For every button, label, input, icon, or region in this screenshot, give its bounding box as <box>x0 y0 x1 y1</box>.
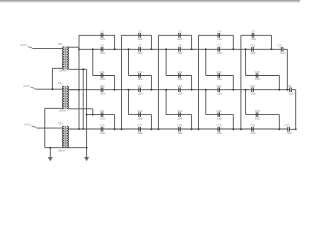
wire rail R5 segment 5 <box>246 114 280 116</box>
svg-text:C25: C25 <box>255 109 260 113</box>
wire drop R5-R6 b2 <box>150 115 152 130</box>
wire rail R5 segment 2 <box>129 114 152 116</box>
wire feed R4-R5 b4 <box>245 90 247 115</box>
wire rail R2 <box>79 48 281 50</box>
svg-text:C10: C10 <box>250 44 255 48</box>
capacitor C19 <box>217 87 219 92</box>
svg-text:100n: 100n <box>280 52 286 55</box>
svg-text:TR1: TR1 <box>58 42 63 46</box>
wire drop R5-R6 b4 <box>232 115 234 130</box>
wire rail R1 segment 4 <box>199 34 234 36</box>
wire TR2 secondary top lead <box>69 89 79 91</box>
svg-text:C9: C9 <box>217 44 221 48</box>
svg-text:100n: 100n <box>287 132 293 135</box>
wire rail R3 segment 2 <box>129 75 152 77</box>
wire drop R3-R4 b2 <box>150 76 152 90</box>
wire drop R1-R2 b3 <box>191 35 193 49</box>
svg-text:C8: C8 <box>178 44 182 48</box>
top window edge shading <box>0 0 300 1</box>
capacitor C3 <box>178 33 180 38</box>
svg-text:C1: C1 <box>101 30 105 34</box>
svg-text:C31: C31 <box>277 44 282 48</box>
wire rail R5 segment 1 <box>87 114 115 116</box>
svg-text:C7: C7 <box>138 44 142 48</box>
capacitor C33 <box>287 127 289 132</box>
svg-text:C22: C22 <box>137 109 142 113</box>
svg-text:C24: C24 <box>217 109 222 113</box>
wire drop R1-R2 b4 <box>232 35 234 49</box>
svg-text:100n: 100n <box>217 52 223 55</box>
capacitor C2 <box>138 33 140 38</box>
svg-text:100n: 100n <box>288 92 294 95</box>
ground G1 <box>49 148 51 157</box>
capacitor C5 <box>251 33 253 38</box>
svg-text:C23: C23 <box>177 109 182 113</box>
svg-text:C14: C14 <box>217 70 222 74</box>
svg-text:C29: C29 <box>217 124 222 128</box>
capacitor C21 <box>100 112 102 117</box>
svg-text:100n: 100n <box>100 92 106 95</box>
svg-text:100n: 100n <box>100 52 106 55</box>
svg-text:C5: C5 <box>252 30 256 34</box>
wire feed R2-R3 b2 <box>165 49 167 75</box>
svg-text:C32: C32 <box>287 84 292 88</box>
svg-text:100n: 100n <box>138 92 144 95</box>
svg-text:C19: C19 <box>217 84 222 88</box>
wire feed R2-R3 b3 <box>205 49 207 75</box>
wire TR1 primary bottom <box>52 67 62 69</box>
wire TR1 secondary bottom lead <box>69 68 87 70</box>
transformer TR2 <box>63 86 65 109</box>
wire vertical V87 <box>86 69 88 147</box>
wire input2 to TR2 primary <box>36 88 63 90</box>
wire feed R4-R5 b2 <box>165 90 167 115</box>
capacitor C29 <box>217 127 219 132</box>
svg-text:100n: 100n <box>217 117 223 120</box>
capacitor C4 <box>217 33 219 38</box>
capacitor C8 <box>178 47 180 52</box>
svg-text:C16: C16 <box>100 84 105 88</box>
capacitor C11 <box>100 73 102 78</box>
svg-text:ACV2: ACV2 <box>23 85 30 88</box>
wire rail2-rail3 input feed <box>92 49 94 75</box>
ground rail <box>45 147 87 149</box>
capacitor C12 <box>138 73 140 78</box>
wire vertical V83 <box>82 69 84 129</box>
wire input3 to TR3 primary <box>37 127 63 129</box>
capacitor C17 <box>138 87 140 92</box>
svg-text:100n: 100n <box>138 117 144 120</box>
svg-text:100n: 100n <box>138 52 144 55</box>
svg-text:100mH: 100mH <box>59 70 67 73</box>
wire feed R4-R5 b1 <box>128 90 130 115</box>
wire feed R2-R3 b1 <box>128 49 130 75</box>
svg-text:100n: 100n <box>138 38 144 41</box>
svg-text:C21: C21 <box>100 109 105 113</box>
svg-text:C20: C20 <box>250 84 255 88</box>
capacitor C16 <box>100 87 102 92</box>
wire rail R1 segment 2 <box>122 34 152 36</box>
ground G2 <box>86 148 88 157</box>
capacitor C20 <box>251 87 253 92</box>
svg-text:ACV1: ACV1 <box>20 44 27 47</box>
wire drop R3-R4 b3 <box>191 76 193 90</box>
svg-text:100mH: 100mH <box>58 150 66 153</box>
svg-text:100n: 100n <box>217 38 223 41</box>
capacitor C9 <box>217 47 219 52</box>
svg-text:100n: 100n <box>138 132 144 135</box>
wire feed R2-R3 b4 <box>245 49 247 75</box>
wire drop R5-R6 b3 <box>191 115 193 130</box>
svg-text:100n: 100n <box>250 132 256 135</box>
wire feed R4-R5 b3 <box>205 90 207 115</box>
capacitor C31 <box>280 47 282 52</box>
wire rail R1 segment 3 <box>158 34 191 36</box>
wire TR2 secondary bottom lead <box>69 108 93 110</box>
wire rail R6 <box>69 128 288 130</box>
wire TR1 secondary top lead <box>69 46 79 48</box>
wire rail R3 segment 5 <box>246 75 280 77</box>
page background <box>0 0 300 188</box>
svg-text:100n: 100n <box>217 78 223 81</box>
svg-text:100n: 100n <box>177 78 183 81</box>
wire drop R5-R6 b1 <box>114 115 116 130</box>
wire rail R3 segment 1 <box>93 75 115 77</box>
svg-text:100n: 100n <box>255 78 261 81</box>
svg-text:C15: C15 <box>255 70 260 74</box>
capacitor C27 <box>138 127 140 132</box>
svg-text:C2: C2 <box>138 30 142 34</box>
svg-text:C6: C6 <box>101 44 105 48</box>
svg-text:100n: 100n <box>138 78 144 81</box>
capacitor C25 <box>255 112 257 117</box>
wire rail R5 segment 3 <box>166 114 192 116</box>
svg-text:TR3: TR3 <box>58 121 63 125</box>
svg-text:100n: 100n <box>177 52 183 55</box>
wire rail R5 segment 4 <box>206 114 234 116</box>
wire rail R1 segment 5 <box>241 34 272 36</box>
svg-text:C33: C33 <box>285 124 290 128</box>
wire rise R6-R1 b2 <box>157 35 159 129</box>
capacitor C26 <box>100 127 102 132</box>
svg-text:100n: 100n <box>177 38 183 41</box>
svg-text:TR2: TR2 <box>58 81 63 85</box>
svg-text:100n: 100n <box>251 38 257 41</box>
svg-text:100n: 100n <box>177 92 183 95</box>
capacitor C18 <box>178 87 180 92</box>
svg-text:100n: 100n <box>217 132 223 135</box>
svg-text:100n: 100n <box>250 92 256 95</box>
svg-text:C28: C28 <box>177 124 182 128</box>
svg-text:C12: C12 <box>137 70 142 74</box>
node vertical V79 <box>78 35 80 129</box>
capacitor C30 <box>251 127 253 132</box>
svg-text:100n: 100n <box>100 132 106 135</box>
svg-text:100n: 100n <box>250 52 256 55</box>
wire rise R6-R1 b4 <box>240 35 242 129</box>
svg-text:C11: C11 <box>100 70 105 74</box>
wire drop R1-R2 stage5 <box>270 35 272 49</box>
wire R2 output drop <box>283 48 287 50</box>
transformer TR1 <box>63 47 65 70</box>
svg-text:100n: 100n <box>217 92 223 95</box>
svg-text:ACV3: ACV3 <box>24 124 31 127</box>
wire drop R1-R2 b2 <box>150 35 152 49</box>
capacitor C15 <box>255 73 257 78</box>
capacitor C10 <box>251 47 253 52</box>
svg-text:C26: C26 <box>100 124 105 128</box>
capacitor C22 <box>138 112 140 117</box>
capacitor C7 <box>138 47 140 52</box>
capacitor C32 <box>289 87 291 92</box>
capacitor C13 <box>178 73 180 78</box>
wire rise R6-R1 b3 <box>198 35 200 129</box>
svg-text:100n: 100n <box>100 78 106 81</box>
svg-text:C3: C3 <box>178 30 182 34</box>
wire TR2 primary bottom <box>45 107 63 109</box>
capacitor C28 <box>178 127 180 132</box>
svg-text:100n: 100n <box>255 117 261 120</box>
capacitor C23 <box>178 112 180 117</box>
capacitor C1 <box>100 33 102 38</box>
svg-text:100n: 100n <box>100 38 106 41</box>
svg-text:C13: C13 <box>177 70 182 74</box>
wire input1 to TR1 primary <box>33 48 63 50</box>
svg-text:C30: C30 <box>250 124 255 128</box>
svg-text:100n: 100n <box>177 117 183 120</box>
wire rail R3 segment 4 <box>206 75 234 77</box>
svg-text:C17: C17 <box>137 84 142 88</box>
wire R4 output drop <box>291 89 295 91</box>
svg-text:C27: C27 <box>137 124 142 128</box>
svg-text:C4: C4 <box>217 30 221 34</box>
svg-text:100n: 100n <box>177 132 183 135</box>
wire TR3 secondary top lead <box>69 128 79 130</box>
wire drop R3-R4 stage5 <box>278 76 280 90</box>
wire drop R1-R2 b1 <box>114 35 116 49</box>
transformer TR3 <box>63 126 65 147</box>
wire rail R1 segment 1 <box>79 34 115 36</box>
capacitor C6 <box>100 47 102 52</box>
svg-text:C18: C18 <box>177 84 182 88</box>
wire rise R6-R1 b1 <box>121 35 123 129</box>
wire R6 output end <box>289 128 295 130</box>
wire rail R4 <box>69 89 290 91</box>
svg-text:100mH: 100mH <box>59 109 67 112</box>
svg-text:100n: 100n <box>100 117 106 120</box>
wire drop R3-R4 b1 <box>114 76 116 90</box>
wire drop R3-R4 b4 <box>232 76 234 90</box>
wire rail R3 segment 3 <box>166 75 192 77</box>
wire drop R5-R6 stage5 <box>278 115 280 130</box>
capacitor C24 <box>217 112 219 117</box>
capacitor C14 <box>217 73 219 78</box>
